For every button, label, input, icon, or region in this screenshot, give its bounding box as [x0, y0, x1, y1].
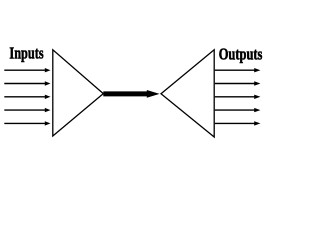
output arrow 3 — [215, 95, 261, 99]
svg-text:Inputs: Inputs — [9, 45, 43, 63]
input arrow 5 — [4, 121, 50, 125]
left funnel triangle — [53, 50, 104, 136]
output arrow 5 — [215, 121, 261, 125]
output arrow 2 — [215, 81, 261, 85]
thick center arrow shaft — [103, 91, 148, 96]
input arrow 4 — [4, 108, 50, 112]
output arrow 1 — [215, 68, 261, 72]
input arrow 3 — [4, 95, 50, 99]
output arrow 4 — [215, 108, 261, 112]
input arrow 2 — [4, 81, 50, 85]
thick center arrow head — [147, 90, 160, 98]
svg-text:Outputs: Outputs — [219, 46, 263, 64]
input arrow 1 — [4, 68, 50, 72]
right funnel triangle — [161, 50, 214, 137]
